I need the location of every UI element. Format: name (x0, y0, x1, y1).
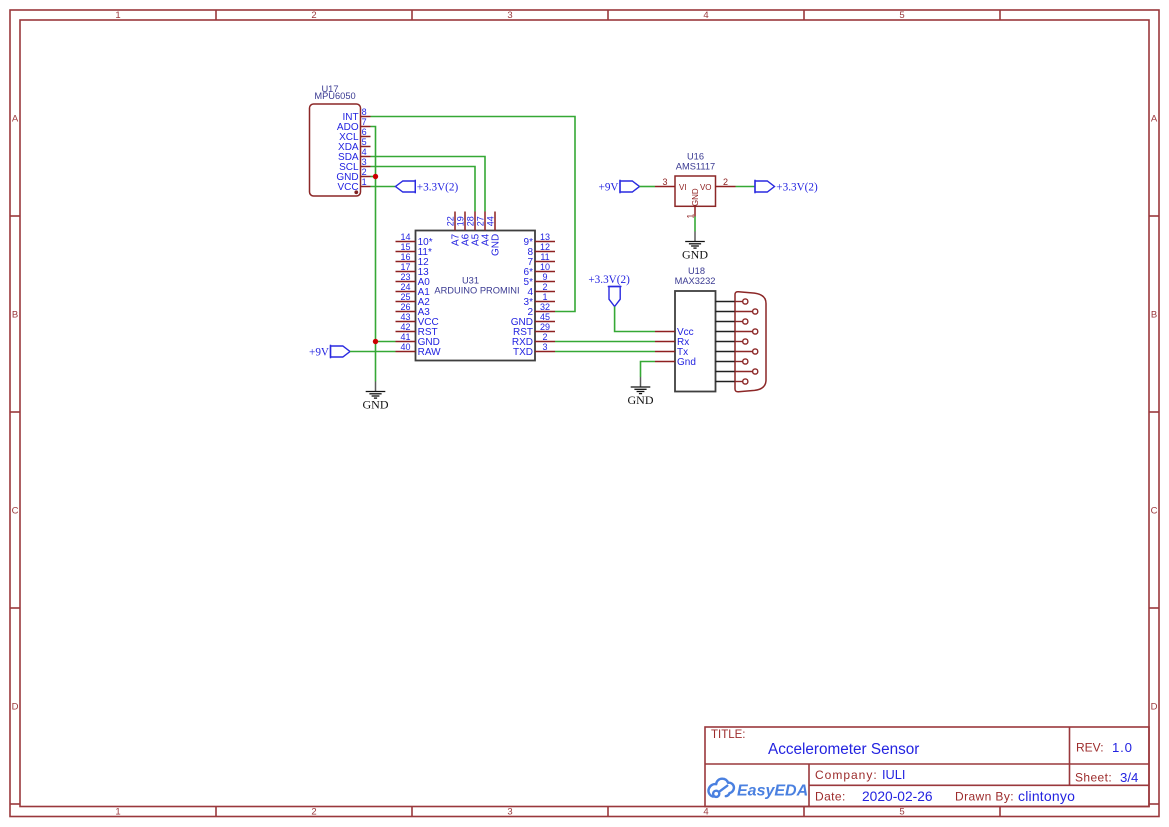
pin 7 ADO of U17 (337, 117, 371, 133)
svg-text:Date:: Date: (815, 790, 846, 804)
pin 28 A5 of U31 (465, 212, 481, 247)
pin 2 4 of U31 (527, 282, 555, 298)
pin 23 A0 of U31 (396, 272, 431, 288)
pin 3 SCL of U17 (339, 157, 370, 173)
svg-text:MPU6050: MPU6050 (314, 91, 355, 101)
pin Rx of U18 (655, 337, 689, 348)
pin 13 9* of U31 (524, 232, 555, 248)
svg-text:8: 8 (362, 107, 367, 117)
wire U17.VCC to +3.3V flag (371, 186, 396, 188)
wire U17.SCL to U31.A5 (371, 167, 476, 212)
svg-text:42: 42 (400, 322, 410, 332)
svg-text:Accelerometer Sensor: Accelerometer Sensor (768, 741, 919, 758)
svg-text:2: 2 (311, 10, 316, 21)
svg-text:29: 29 (540, 322, 550, 332)
svg-text:6: 6 (362, 127, 367, 137)
svg-text:A: A (1151, 113, 1158, 124)
svg-text:U16: U16 (687, 152, 704, 162)
pin 1 3* of U31 (524, 292, 555, 308)
wire +9V to U31.RAW (350, 351, 396, 353)
svg-text:3: 3 (507, 10, 512, 21)
svg-text:2020-02-26: 2020-02-26 (862, 789, 933, 804)
pin 42 RST of U31 (396, 322, 438, 338)
wire U16.VO to +3.3V flag (736, 186, 756, 188)
svg-text:D: D (1151, 701, 1158, 712)
svg-text:B: B (1151, 309, 1157, 320)
svg-text:9: 9 (542, 272, 547, 282)
svg-text:AMS1117: AMS1117 (676, 161, 715, 171)
svg-text:13: 13 (540, 232, 550, 242)
svg-text:40: 40 (400, 342, 410, 352)
pin 4 SDA of U17 (338, 147, 370, 163)
IC U17 MPU6050 accelerometer/gyro module (310, 84, 371, 196)
pin 45 GND of U31 (511, 312, 555, 328)
svg-text:VCC: VCC (337, 182, 358, 193)
DB9 contact 4 (716, 329, 758, 334)
svg-text:+9V: +9V (309, 347, 329, 359)
pin 32 2 of U31 (527, 302, 555, 318)
svg-text:16: 16 (400, 252, 410, 262)
svg-text:5: 5 (899, 10, 904, 21)
pin 14 10* of U31 (396, 232, 433, 248)
wire U17.INT to U31.pin2 (371, 117, 576, 312)
DB9 contact 9 (716, 379, 748, 384)
pin 22 A7 of U31 (445, 212, 461, 247)
svg-text:REV:: REV: (1076, 741, 1104, 755)
pin 10 6* of U31 (524, 262, 555, 278)
DB9 contact 2 (716, 309, 758, 314)
pin 2 VO of U16 (716, 186, 736, 188)
svg-text:14: 14 (400, 232, 410, 242)
svg-text:U31: U31 (462, 275, 479, 285)
DB9 contact 8 (716, 369, 758, 374)
pin 29 RST of U31 (513, 322, 555, 338)
svg-text:EasyEDA: EasyEDA (737, 783, 808, 800)
svg-text:15: 15 (400, 242, 410, 252)
pin 9 5* of U31 (524, 272, 555, 288)
svg-text:17: 17 (400, 262, 410, 272)
svg-text:10: 10 (540, 262, 550, 272)
svg-text:23: 23 (400, 272, 410, 282)
wire U16.GND to ground (694, 217, 696, 232)
svg-text:TITLE:: TITLE: (711, 729, 746, 741)
svg-text:GND: GND (628, 393, 654, 407)
pin 15 11* of U31 (396, 242, 432, 258)
svg-text:4: 4 (362, 147, 367, 157)
svg-text:ARDUINO PROMINI: ARDUINO PROMINI (434, 285, 519, 295)
svg-text:GND: GND (363, 397, 389, 411)
pin 26 A3 of U31 (396, 302, 431, 318)
ground below U18 (628, 377, 654, 407)
svg-text:11: 11 (540, 252, 549, 262)
power flag +3.3V(2) at U16 VO (755, 180, 818, 194)
svg-text:5: 5 (362, 137, 367, 147)
svg-text:45: 45 (540, 312, 550, 322)
DB9 contact 3 (716, 319, 748, 324)
pin 3 TXD of U31 (513, 342, 555, 358)
svg-text:3: 3 (362, 157, 367, 167)
svg-text:12: 12 (540, 242, 550, 252)
wire +3.3V(2) to U18.Vcc (615, 307, 655, 332)
svg-text:+3.3V(2): +3.3V(2) (588, 274, 630, 286)
pin 1 GND of U16 (694, 206, 696, 216)
pin 24 A1 of U31 (396, 282, 431, 298)
wire U31.TXD to U18.Tx (555, 351, 655, 353)
svg-text:Gnd: Gnd (677, 357, 696, 368)
DB9 contact 5 (716, 339, 748, 344)
svg-text:clintonyo: clintonyo (1018, 788, 1075, 804)
svg-text:19: 19 (455, 216, 465, 226)
svg-text:1: 1 (685, 214, 695, 219)
svg-text:+3.3V(2): +3.3V(2) (776, 182, 818, 194)
svg-text:VI: VI (679, 183, 687, 192)
junction U31 GND node (373, 339, 378, 344)
svg-text:GND: GND (682, 247, 708, 261)
svg-text:C: C (12, 505, 19, 516)
DB9 connector of U18 (716, 292, 767, 392)
IC U18 MAX3232 serial transceiver (655, 266, 766, 392)
power flag +9V at U16 VI (599, 180, 640, 194)
svg-text:32: 32 (540, 302, 550, 312)
pin 1 VCC of U17 (337, 177, 370, 193)
pin 40 RAW of U31 (396, 342, 442, 358)
pin 5 XDA of U17 (338, 137, 370, 153)
pin 41 GND of U31 (396, 332, 440, 348)
svg-text:3: 3 (662, 177, 667, 187)
svg-text:RAW: RAW (418, 347, 442, 358)
svg-text:+3.3V(2): +3.3V(2) (417, 182, 459, 194)
ground below U31 (363, 382, 389, 412)
svg-text:43: 43 (400, 312, 410, 322)
wire U17.ADO down to ground (371, 127, 376, 382)
DB9 contact 6 (716, 349, 758, 354)
title block (705, 727, 1149, 807)
svg-text:1.0: 1.0 (1112, 740, 1133, 755)
svg-text:44: 44 (485, 216, 495, 226)
pin Gnd of U18 (655, 357, 696, 368)
pin 19 A6 of U31 (455, 212, 471, 247)
svg-text:2: 2 (362, 167, 367, 177)
svg-text:1: 1 (542, 292, 547, 302)
svg-text:Sheet:: Sheet: (1075, 771, 1112, 785)
pin 6 XCL of U17 (339, 127, 370, 143)
svg-text:25: 25 (400, 292, 410, 302)
wire U18.Gnd to ground (641, 362, 656, 378)
svg-text:4: 4 (703, 807, 708, 818)
svg-text:A: A (12, 113, 19, 124)
DB9 contact 1 (716, 299, 748, 304)
svg-text:Company:: Company: (815, 768, 878, 782)
pin Tx of U18 (655, 347, 688, 358)
power flag +9V at U31 RAW (309, 345, 350, 359)
pin 44 GND of U31 (485, 212, 501, 257)
pin 2 GND of U17 (336, 167, 370, 183)
pin 3 VI of U16 (655, 186, 675, 188)
svg-text:GND: GND (491, 234, 502, 256)
svg-text:GND: GND (691, 188, 700, 206)
svg-text:D: D (12, 701, 19, 712)
DB9 contact 7 (716, 359, 748, 364)
IC U31 ARDUINO PROMINI (396, 212, 556, 361)
wire U31.GND pin41 to vertical (376, 341, 396, 343)
svg-text:C: C (1151, 505, 1158, 516)
pin 12 8 of U31 (527, 242, 555, 258)
wire U31.RXD to U18.Rx (555, 341, 655, 343)
ground below U16 (682, 232, 708, 262)
svg-text:1: 1 (115, 807, 120, 818)
svg-text:5: 5 (899, 807, 904, 818)
pin Vcc of U18 (655, 327, 694, 338)
wire U17.SDA to U31.A4 (371, 157, 486, 212)
wire +9V flag to U16.VI (640, 186, 656, 188)
svg-text:3: 3 (507, 807, 512, 818)
svg-text:22: 22 (445, 216, 455, 226)
pin 43 VCC of U31 (396, 312, 439, 328)
pin 16 12 of U31 (396, 252, 430, 268)
pin 25 A2 of U31 (396, 292, 431, 308)
svg-text:+9V: +9V (599, 182, 619, 194)
svg-text:26: 26 (400, 302, 410, 312)
svg-text:3/4: 3/4 (1120, 770, 1138, 785)
svg-text:24: 24 (400, 282, 410, 292)
svg-text:4: 4 (703, 10, 708, 21)
svg-text:2: 2 (542, 282, 547, 292)
power flag +3.3V(2) at U18 Vcc (588, 274, 630, 307)
svg-text:7: 7 (362, 117, 367, 127)
EasyEDA logo (708, 779, 808, 800)
svg-text:41: 41 (400, 332, 410, 342)
svg-text:3: 3 (542, 342, 547, 352)
svg-text:2: 2 (311, 807, 316, 818)
svg-text:VO: VO (700, 183, 712, 192)
svg-text:U18: U18 (688, 266, 705, 276)
svg-text:TXD: TXD (513, 347, 533, 358)
pin 17 13 of U31 (396, 262, 430, 278)
pin 27 A4 of U31 (475, 212, 491, 247)
svg-text:MAX3232: MAX3232 (675, 276, 716, 286)
svg-text:2: 2 (723, 177, 728, 187)
svg-text:27: 27 (475, 216, 485, 226)
svg-text:IULI: IULI (882, 767, 905, 782)
wire U17.GND to vertical (371, 176, 376, 178)
svg-text:2: 2 (542, 332, 547, 342)
pin 11 7 of U31 (527, 252, 555, 268)
voltage regulator U16 AMS1117 (655, 152, 736, 219)
svg-text:28: 28 (465, 216, 475, 226)
svg-text:1: 1 (115, 10, 120, 21)
pin 2 RXD of U31 (512, 332, 555, 348)
svg-text:B: B (12, 309, 18, 320)
svg-text:Drawn By:: Drawn By: (955, 790, 1014, 804)
svg-text:1: 1 (362, 177, 367, 187)
power flag +3.3V(2) at U17 VCC (396, 180, 459, 194)
junction U17 GND node (373, 174, 378, 179)
pin 8 INT of U17 (342, 107, 370, 123)
